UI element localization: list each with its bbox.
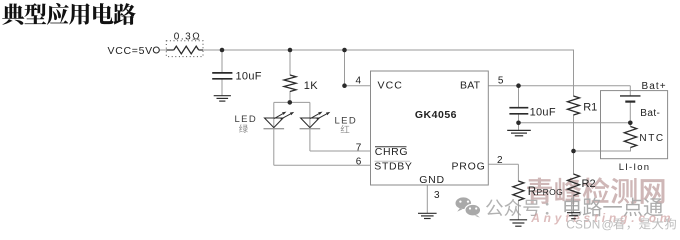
- label 0.3 ohm: [174, 32, 201, 43]
- wire red LED cathode down: [309, 129, 311, 151]
- ground for C1: [214, 96, 231, 101]
- resistor RPROG: [513, 181, 524, 201]
- wire Bat- node to NTC: [629, 123, 631, 127]
- svg-text:LED: LED: [235, 114, 258, 125]
- wire RPROG to ground: [517, 201, 519, 220]
- capacitor C2 10uF: [509, 108, 528, 114]
- wire rail to 1K: [289, 50, 291, 76]
- node C2 ground: [516, 121, 521, 126]
- svg-text:@: @: [602, 217, 614, 231]
- pin name STDBY with overline: [374, 161, 412, 173]
- watermark pink text 青峰检测网: [527, 177, 664, 204]
- svg-text:1K: 1K: [304, 80, 319, 92]
- resistor R2: [568, 174, 580, 196]
- node Bat- terminal: [628, 121, 633, 126]
- svg-text:BAT: BAT: [460, 79, 481, 91]
- label R1: [583, 102, 597, 114]
- watermark italic Anytesting.com: [530, 211, 674, 225]
- label VCC=5V: [108, 45, 153, 57]
- svg-text:10uF: 10uF: [236, 71, 262, 83]
- wire rail corner down to R1: [573, 50, 575, 97]
- wire R1 to R2: [573, 115, 575, 175]
- label R2: [582, 178, 596, 190]
- svg-text:10uF: 10uF: [530, 107, 556, 119]
- pin 7: [356, 142, 362, 153]
- watermark gray text 公众号：: [486, 199, 549, 216]
- svg-text:GK4056: GK4056: [415, 109, 457, 121]
- wire GND pin 3 to ground: [426, 185, 428, 213]
- wire node to green LED: [273, 102, 275, 128]
- ground for IC GND pin: [418, 213, 437, 218]
- node BAT/C2: [516, 83, 521, 88]
- svg-text:CSDN: CSDN: [566, 217, 600, 231]
- wire pin 2 down to RPROG: [517, 164, 519, 181]
- wire PROG pin 2: [488, 163, 518, 165]
- node C1 tap: [220, 48, 225, 53]
- wire battery cell to Bat- node: [629, 102, 631, 123]
- LED D1 green: [264, 112, 295, 129]
- resistor R1: [568, 96, 580, 115]
- svg-text:VCC: VCC: [378, 79, 403, 91]
- pin name BAT: [460, 79, 481, 91]
- svg-text:R1: R1: [583, 102, 597, 114]
- pin name GND: [419, 174, 445, 186]
- svg-text:LI-Ion: LI-Ion: [619, 162, 651, 173]
- svg-text:LED: LED: [335, 115, 358, 126]
- svg-text:CHRG: CHRG: [375, 146, 408, 158]
- wire to STDBY pin 6: [274, 164, 371, 166]
- wire rail down to pin 4: [344, 50, 346, 86]
- svg-text:R: R: [528, 186, 536, 198]
- svg-text:7: 7: [356, 142, 362, 153]
- input terminal VCC=5V: [153, 47, 159, 53]
- label NTC: [639, 133, 664, 144]
- label RPROG: [528, 186, 563, 198]
- IC name GK4056: [415, 109, 457, 121]
- pin 2: [497, 155, 503, 166]
- svg-text:6: 6: [356, 156, 362, 167]
- ground for R2: [567, 213, 580, 219]
- wire BAT pin 5 to battery: [488, 85, 630, 87]
- svg-text:Bat-: Bat-: [640, 108, 660, 119]
- wire to CHRG pin 7: [310, 150, 371, 152]
- capacitor C1 10uF: [212, 73, 232, 79]
- node LED anode: [288, 100, 293, 105]
- watermark CSDN credit line: [566, 217, 676, 231]
- label LED red: [335, 115, 358, 133]
- svg-text:PROG: PROG: [537, 187, 564, 197]
- pin 4: [356, 75, 362, 86]
- wire NTC bottom to divider node: [574, 148, 631, 152]
- label LED green: [235, 114, 258, 133]
- LED D2 red: [300, 112, 331, 129]
- node VCC tap: [342, 48, 347, 53]
- wire rail to C1: [221, 50, 223, 73]
- label Bat+: [642, 81, 667, 92]
- pin name CHRG with overline: [375, 146, 408, 158]
- label LI-Ion: [619, 162, 651, 173]
- wire down to Bat+ terminal: [629, 86, 631, 96]
- resistor 0.3 ohm: [166, 46, 203, 54]
- wire VCC input to series resistor: [159, 49, 167, 51]
- pin name VCC: [378, 79, 403, 91]
- wire node to red LED: [309, 102, 311, 128]
- wire C2 to ground node: [518, 114, 520, 131]
- op-amp U1 GK4056 IC body: [371, 71, 489, 185]
- label C2 10uF: [530, 107, 556, 119]
- label C1 10uF: [236, 71, 262, 83]
- node R1/R2 divider: [571, 149, 576, 154]
- ground for RPROG: [510, 220, 527, 226]
- svg-text:PROG: PROG: [452, 161, 486, 173]
- svg-text:2: 2: [497, 155, 503, 166]
- thermistor NTC: [624, 127, 636, 148]
- pin name PROG: [452, 161, 486, 173]
- battery pack LI-Ion box: [601, 91, 668, 159]
- wire to VCC pin 4: [345, 85, 371, 87]
- dashed box around 0.3 ohm: [166, 41, 203, 57]
- svg-text:5: 5: [498, 75, 504, 86]
- svg-text:Bat+: Bat+: [642, 81, 667, 92]
- node pin4 corner: [342, 83, 347, 88]
- pin 6: [356, 156, 362, 167]
- watermark gray text 电路一点通: [564, 198, 662, 217]
- wire 1K to LED node: [289, 91, 291, 102]
- svg-text:0.3Ω: 0.3Ω: [174, 32, 201, 43]
- wire C1 to ground: [221, 79, 223, 96]
- svg-text:STDBY: STDBY: [374, 161, 412, 173]
- svg-text:GND: GND: [419, 174, 445, 186]
- battery cell symbol: [620, 96, 641, 102]
- svg-text:NTC: NTC: [639, 133, 664, 144]
- wire green LED cathode down: [273, 129, 275, 166]
- pin 3: [434, 190, 440, 201]
- svg-text:3: 3: [434, 190, 440, 201]
- title 典型应用电路: [2, 3, 136, 25]
- ground for C2: [507, 130, 531, 135]
- wire R2 to ground: [573, 196, 575, 213]
- label 1K: [304, 80, 319, 92]
- wire top supply rail: [203, 49, 574, 51]
- svg-text:VCC=5V: VCC=5V: [108, 45, 153, 57]
- svg-text:R2: R2: [582, 178, 596, 190]
- wire LED anode bus: [274, 101, 310, 103]
- wire Bat- return line: [519, 122, 631, 124]
- svg-text:4: 4: [356, 75, 362, 86]
- resistor R3 1K: [284, 75, 296, 92]
- pin 5: [498, 75, 504, 86]
- label Bat-: [640, 108, 660, 119]
- node 1K tap: [288, 48, 293, 53]
- wire BAT node to C2: [518, 86, 520, 108]
- watermark WeChat icon: [456, 197, 481, 217]
